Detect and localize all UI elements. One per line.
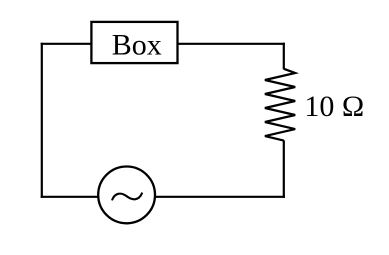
svg-text:Box: Box bbox=[112, 29, 162, 62]
wire bottom bbox=[41, 196, 285, 198]
AC source sine tilde bbox=[112, 193, 142, 199]
wire right upper bbox=[283, 43, 285, 70]
AC source circle bbox=[98, 167, 155, 224]
wire right lower bbox=[283, 140, 285, 198]
wire left bbox=[41, 43, 43, 198]
box component rectangle bbox=[91, 22, 177, 63]
svg-text:10 Ω: 10 Ω bbox=[304, 90, 364, 123]
wire top bbox=[41, 43, 285, 45]
resistor R 10 ohm zigzag bbox=[265, 69, 295, 141]
